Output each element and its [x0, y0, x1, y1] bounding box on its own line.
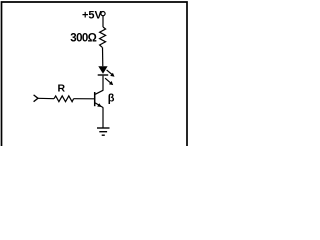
LED D1 cathode bar	[98, 74, 109, 76]
LED D1 anode triangle	[98, 66, 107, 73]
LED light arrow lower	[105, 78, 113, 85]
wire: input to resistor R	[38, 97, 54, 99]
transistor Q1 emitter lead with arrow	[95, 103, 103, 108]
svg-text:β: β	[108, 93, 115, 105]
wire: emitter to ground	[102, 107, 104, 128]
wire: LED cathode to collector	[102, 76, 104, 91]
svg-text:R: R	[58, 83, 66, 95]
schematic frame (left, top, right borders)	[2, 2, 188, 146]
ground symbol	[97, 128, 110, 135]
svg-text:300Ω: 300Ω	[70, 33, 96, 45]
transistor Q1 collector lead	[95, 90, 103, 94]
wire: terminal to resistor 300ohm	[102, 16, 104, 27]
supply terminal circle	[101, 12, 105, 16]
input terminal chevron	[34, 95, 38, 102]
wire: resistor to LED anode	[102, 47, 104, 66]
resistor R (horizontal zigzag)	[54, 96, 74, 102]
LED light arrow upper	[107, 70, 115, 77]
svg-text:+5V: +5V	[82, 10, 103, 22]
wire: resistor R to base	[74, 98, 94, 100]
transistor Q1 base bar	[94, 92, 96, 106]
resistor 300ohm (vertical zigzag)	[100, 27, 106, 47]
